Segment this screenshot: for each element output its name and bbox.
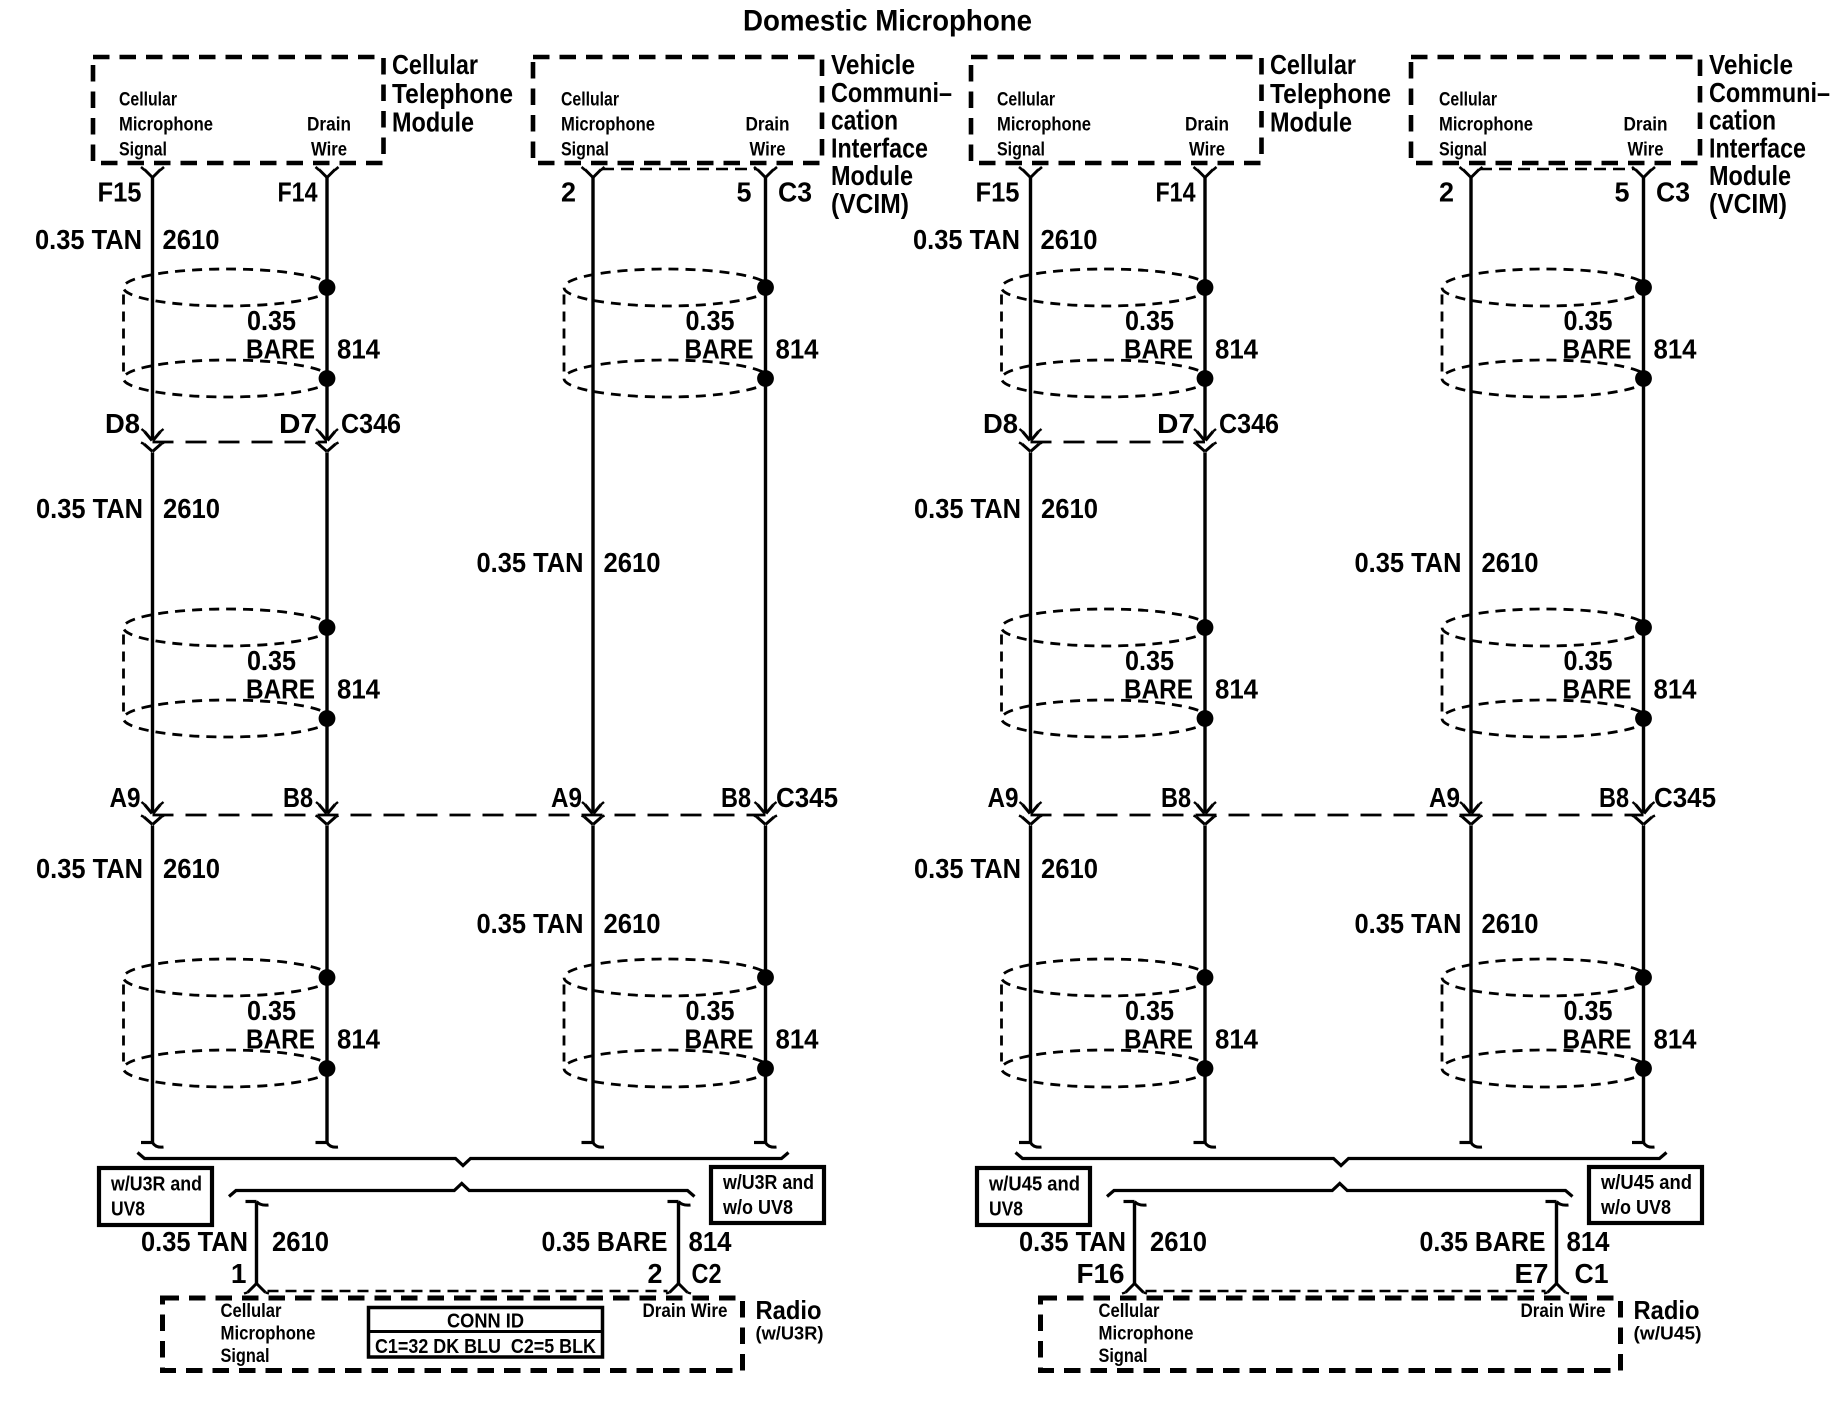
svg-text:F15: F15 (98, 177, 142, 208)
svg-text:C346: C346 (1219, 408, 1279, 439)
svg-text:Microphone: Microphone (119, 114, 213, 136)
svg-text:814: 814 (337, 674, 380, 705)
svg-text:2: 2 (1439, 177, 1454, 208)
svg-text:cation: cation (1709, 105, 1776, 136)
svg-text:Cellular: Cellular (392, 49, 478, 80)
svg-text:0.35: 0.35 (1564, 305, 1613, 336)
svg-text:814: 814 (1654, 1024, 1697, 1055)
svg-text:B8: B8 (283, 782, 313, 813)
svg-text:814: 814 (1215, 674, 1258, 705)
svg-text:Cellular: Cellular (119, 89, 177, 111)
svg-text:C3: C3 (778, 177, 812, 208)
svg-text:w/U45 and: w/U45 and (1600, 1172, 1692, 1194)
svg-text:Drain: Drain (1185, 114, 1229, 136)
svg-text:A9: A9 (551, 782, 582, 813)
svg-text:0.35: 0.35 (686, 305, 735, 336)
svg-text:Module: Module (831, 160, 913, 191)
svg-text:0.35: 0.35 (1564, 645, 1613, 676)
svg-text:Microphone: Microphone (1439, 114, 1533, 136)
svg-text:BARE: BARE (246, 1024, 315, 1055)
svg-text:BARE: BARE (685, 334, 754, 365)
svg-text:0.35: 0.35 (1125, 995, 1174, 1026)
svg-text:0.35 TAN: 0.35 TAN (141, 1226, 248, 1257)
svg-text:2610: 2610 (272, 1226, 329, 1257)
svg-text:Vehicle: Vehicle (831, 49, 915, 80)
svg-text:(w/U3R): (w/U3R) (756, 1323, 824, 1344)
svg-text:0.35: 0.35 (1125, 645, 1174, 676)
svg-text:0.35 TAN: 0.35 TAN (36, 493, 143, 524)
svg-text:814: 814 (689, 1226, 732, 1257)
svg-text:BARE: BARE (685, 1024, 754, 1055)
svg-text:w/o UV8: w/o UV8 (1600, 1197, 1671, 1219)
svg-text:Signal: Signal (561, 139, 609, 161)
svg-text:814: 814 (1654, 674, 1697, 705)
svg-text:814: 814 (337, 334, 380, 365)
svg-text:0.35: 0.35 (686, 995, 735, 1026)
svg-text:0.35 TAN: 0.35 TAN (477, 908, 584, 939)
svg-text:1: 1 (231, 1258, 247, 1289)
svg-text:2: 2 (561, 177, 576, 208)
svg-text:E7: E7 (1515, 1258, 1549, 1289)
svg-text:Module: Module (1270, 107, 1352, 138)
svg-text:A9: A9 (988, 782, 1019, 813)
svg-text:B8: B8 (721, 782, 751, 813)
svg-text:(VCIM): (VCIM) (831, 188, 909, 219)
svg-text:BARE: BARE (1124, 1024, 1193, 1055)
svg-text:Microphone: Microphone (997, 114, 1091, 136)
svg-text:814: 814 (776, 1024, 819, 1055)
svg-text:814: 814 (776, 334, 819, 365)
svg-text:Interface: Interface (1709, 132, 1806, 163)
svg-text:Drain Wire: Drain Wire (1521, 1300, 1606, 1322)
svg-text:2610: 2610 (163, 224, 220, 255)
svg-text:2610: 2610 (1041, 224, 1098, 255)
svg-text:Drain: Drain (1624, 114, 1668, 136)
svg-text:F14: F14 (278, 177, 318, 208)
svg-text:A9: A9 (110, 782, 141, 813)
svg-text:Wire: Wire (311, 139, 347, 161)
svg-text:Drain: Drain (307, 114, 351, 136)
svg-text:Wire: Wire (1189, 139, 1225, 161)
svg-text:D7: D7 (1157, 408, 1195, 439)
svg-text:cation: cation (831, 105, 898, 136)
svg-text:C3: C3 (1656, 177, 1690, 208)
svg-text:2610: 2610 (163, 853, 220, 884)
svg-text:0.35 TAN: 0.35 TAN (1355, 547, 1462, 578)
svg-text:Cellular: Cellular (1439, 89, 1497, 111)
svg-text:Module: Module (392, 107, 474, 138)
svg-text:2610: 2610 (1041, 853, 1098, 884)
svg-text:Wire: Wire (1628, 139, 1664, 161)
svg-text:D8: D8 (983, 408, 1018, 439)
svg-text:2610: 2610 (604, 908, 661, 939)
svg-text:2610: 2610 (1482, 908, 1539, 939)
svg-text:D7: D7 (279, 408, 317, 439)
svg-text:5: 5 (737, 177, 752, 208)
svg-text:0.35 TAN: 0.35 TAN (477, 547, 584, 578)
svg-text:Interface: Interface (831, 132, 928, 163)
svg-text:Cellular: Cellular (997, 89, 1055, 111)
svg-text:w/U45 and: w/U45 and (988, 1174, 1080, 1196)
svg-text:0.35 TAN: 0.35 TAN (914, 853, 1021, 884)
svg-text:2610: 2610 (1041, 493, 1098, 524)
svg-text:0.35: 0.35 (247, 305, 296, 336)
svg-text:UV8: UV8 (989, 1199, 1023, 1221)
svg-text:Drain Wire: Drain Wire (643, 1300, 728, 1322)
svg-text:BARE: BARE (1124, 674, 1193, 705)
svg-text:BARE: BARE (1563, 1024, 1632, 1055)
svg-text:F15: F15 (976, 177, 1020, 208)
svg-text:C345: C345 (776, 782, 838, 813)
svg-text:Cellular: Cellular (221, 1300, 282, 1322)
svg-text:Communi–: Communi– (1709, 77, 1830, 108)
svg-text:0.35 TAN: 0.35 TAN (36, 853, 143, 884)
svg-text:0.35 TAN: 0.35 TAN (35, 224, 142, 255)
svg-text:C1: C1 (1575, 1258, 1609, 1289)
svg-text:B8: B8 (1161, 782, 1191, 813)
svg-text:0.35: 0.35 (1125, 305, 1174, 336)
svg-text:Radio: Radio (756, 1295, 822, 1325)
svg-text:w/o UV8: w/o UV8 (722, 1197, 793, 1219)
svg-text:Radio: Radio (1634, 1295, 1700, 1325)
svg-text:A9: A9 (1429, 782, 1460, 813)
svg-text:Signal: Signal (997, 139, 1045, 161)
svg-text:814: 814 (1567, 1226, 1610, 1257)
svg-text:Telephone: Telephone (392, 78, 513, 109)
svg-text:C1=32 DK BLU C2=5 BLK: C1=32 DK BLU C2=5 BLK (375, 1336, 596, 1358)
svg-text:B8: B8 (1599, 782, 1629, 813)
svg-text:Signal: Signal (1099, 1345, 1148, 1367)
svg-text:814: 814 (1654, 334, 1697, 365)
svg-text:(w/U45): (w/U45) (1634, 1323, 1702, 1344)
svg-text:Microphone: Microphone (561, 114, 655, 136)
svg-text:Cellular: Cellular (561, 89, 619, 111)
svg-text:Communi–: Communi– (831, 77, 952, 108)
svg-text:Cellular: Cellular (1099, 1300, 1160, 1322)
svg-text:(VCIM): (VCIM) (1709, 188, 1787, 219)
svg-text:2610: 2610 (1482, 547, 1539, 578)
svg-text:F14: F14 (1156, 177, 1196, 208)
svg-text:0.35: 0.35 (247, 645, 296, 676)
svg-text:814: 814 (337, 1024, 380, 1055)
svg-text:Cellular: Cellular (1270, 49, 1356, 80)
svg-text:C345: C345 (1654, 782, 1716, 813)
svg-text:2610: 2610 (604, 547, 661, 578)
svg-text:5: 5 (1615, 177, 1630, 208)
svg-text:BARE: BARE (246, 674, 315, 705)
svg-text:0.35 TAN: 0.35 TAN (913, 224, 1020, 255)
svg-text:Vehicle: Vehicle (1709, 49, 1793, 80)
svg-text:814: 814 (1215, 334, 1258, 365)
svg-text:BARE: BARE (1563, 674, 1632, 705)
svg-text:2610: 2610 (163, 493, 220, 524)
svg-text:UV8: UV8 (111, 1199, 145, 1221)
svg-text:C346: C346 (341, 408, 401, 439)
svg-text:Drain: Drain (746, 114, 790, 136)
svg-text:w/U3R and: w/U3R and (110, 1174, 202, 1196)
svg-text:2610: 2610 (1150, 1226, 1207, 1257)
svg-text:Module: Module (1709, 160, 1791, 191)
svg-text:BARE: BARE (1563, 334, 1632, 365)
svg-text:D8: D8 (105, 408, 140, 439)
svg-text:Microphone: Microphone (221, 1323, 316, 1345)
svg-text:w/U3R and: w/U3R and (722, 1172, 814, 1194)
svg-text:Telephone: Telephone (1270, 78, 1391, 109)
svg-text:0.35 TAN: 0.35 TAN (914, 493, 1021, 524)
svg-text:0.35 TAN: 0.35 TAN (1355, 908, 1462, 939)
svg-text:Signal: Signal (119, 139, 167, 161)
svg-text:BARE: BARE (246, 334, 315, 365)
svg-text:0.35 BARE: 0.35 BARE (542, 1226, 668, 1257)
svg-text:Signal: Signal (221, 1345, 270, 1367)
svg-text:BARE: BARE (1124, 334, 1193, 365)
svg-text:CONN ID: CONN ID (447, 1311, 524, 1333)
svg-text:Signal: Signal (1439, 139, 1487, 161)
svg-text:Microphone: Microphone (1099, 1323, 1194, 1345)
svg-text:0.35: 0.35 (1564, 995, 1613, 1026)
svg-text:0.35 TAN: 0.35 TAN (1019, 1226, 1126, 1257)
svg-text:Wire: Wire (750, 139, 786, 161)
svg-text:0.35: 0.35 (247, 995, 296, 1026)
svg-text:2: 2 (648, 1258, 663, 1289)
svg-text:F16: F16 (1077, 1258, 1125, 1289)
svg-text:Domestic Microphone: Domestic Microphone (743, 5, 1032, 38)
svg-text:814: 814 (1215, 1024, 1258, 1055)
svg-text:0.35 BARE: 0.35 BARE (1420, 1226, 1546, 1257)
svg-text:C2: C2 (692, 1258, 722, 1289)
